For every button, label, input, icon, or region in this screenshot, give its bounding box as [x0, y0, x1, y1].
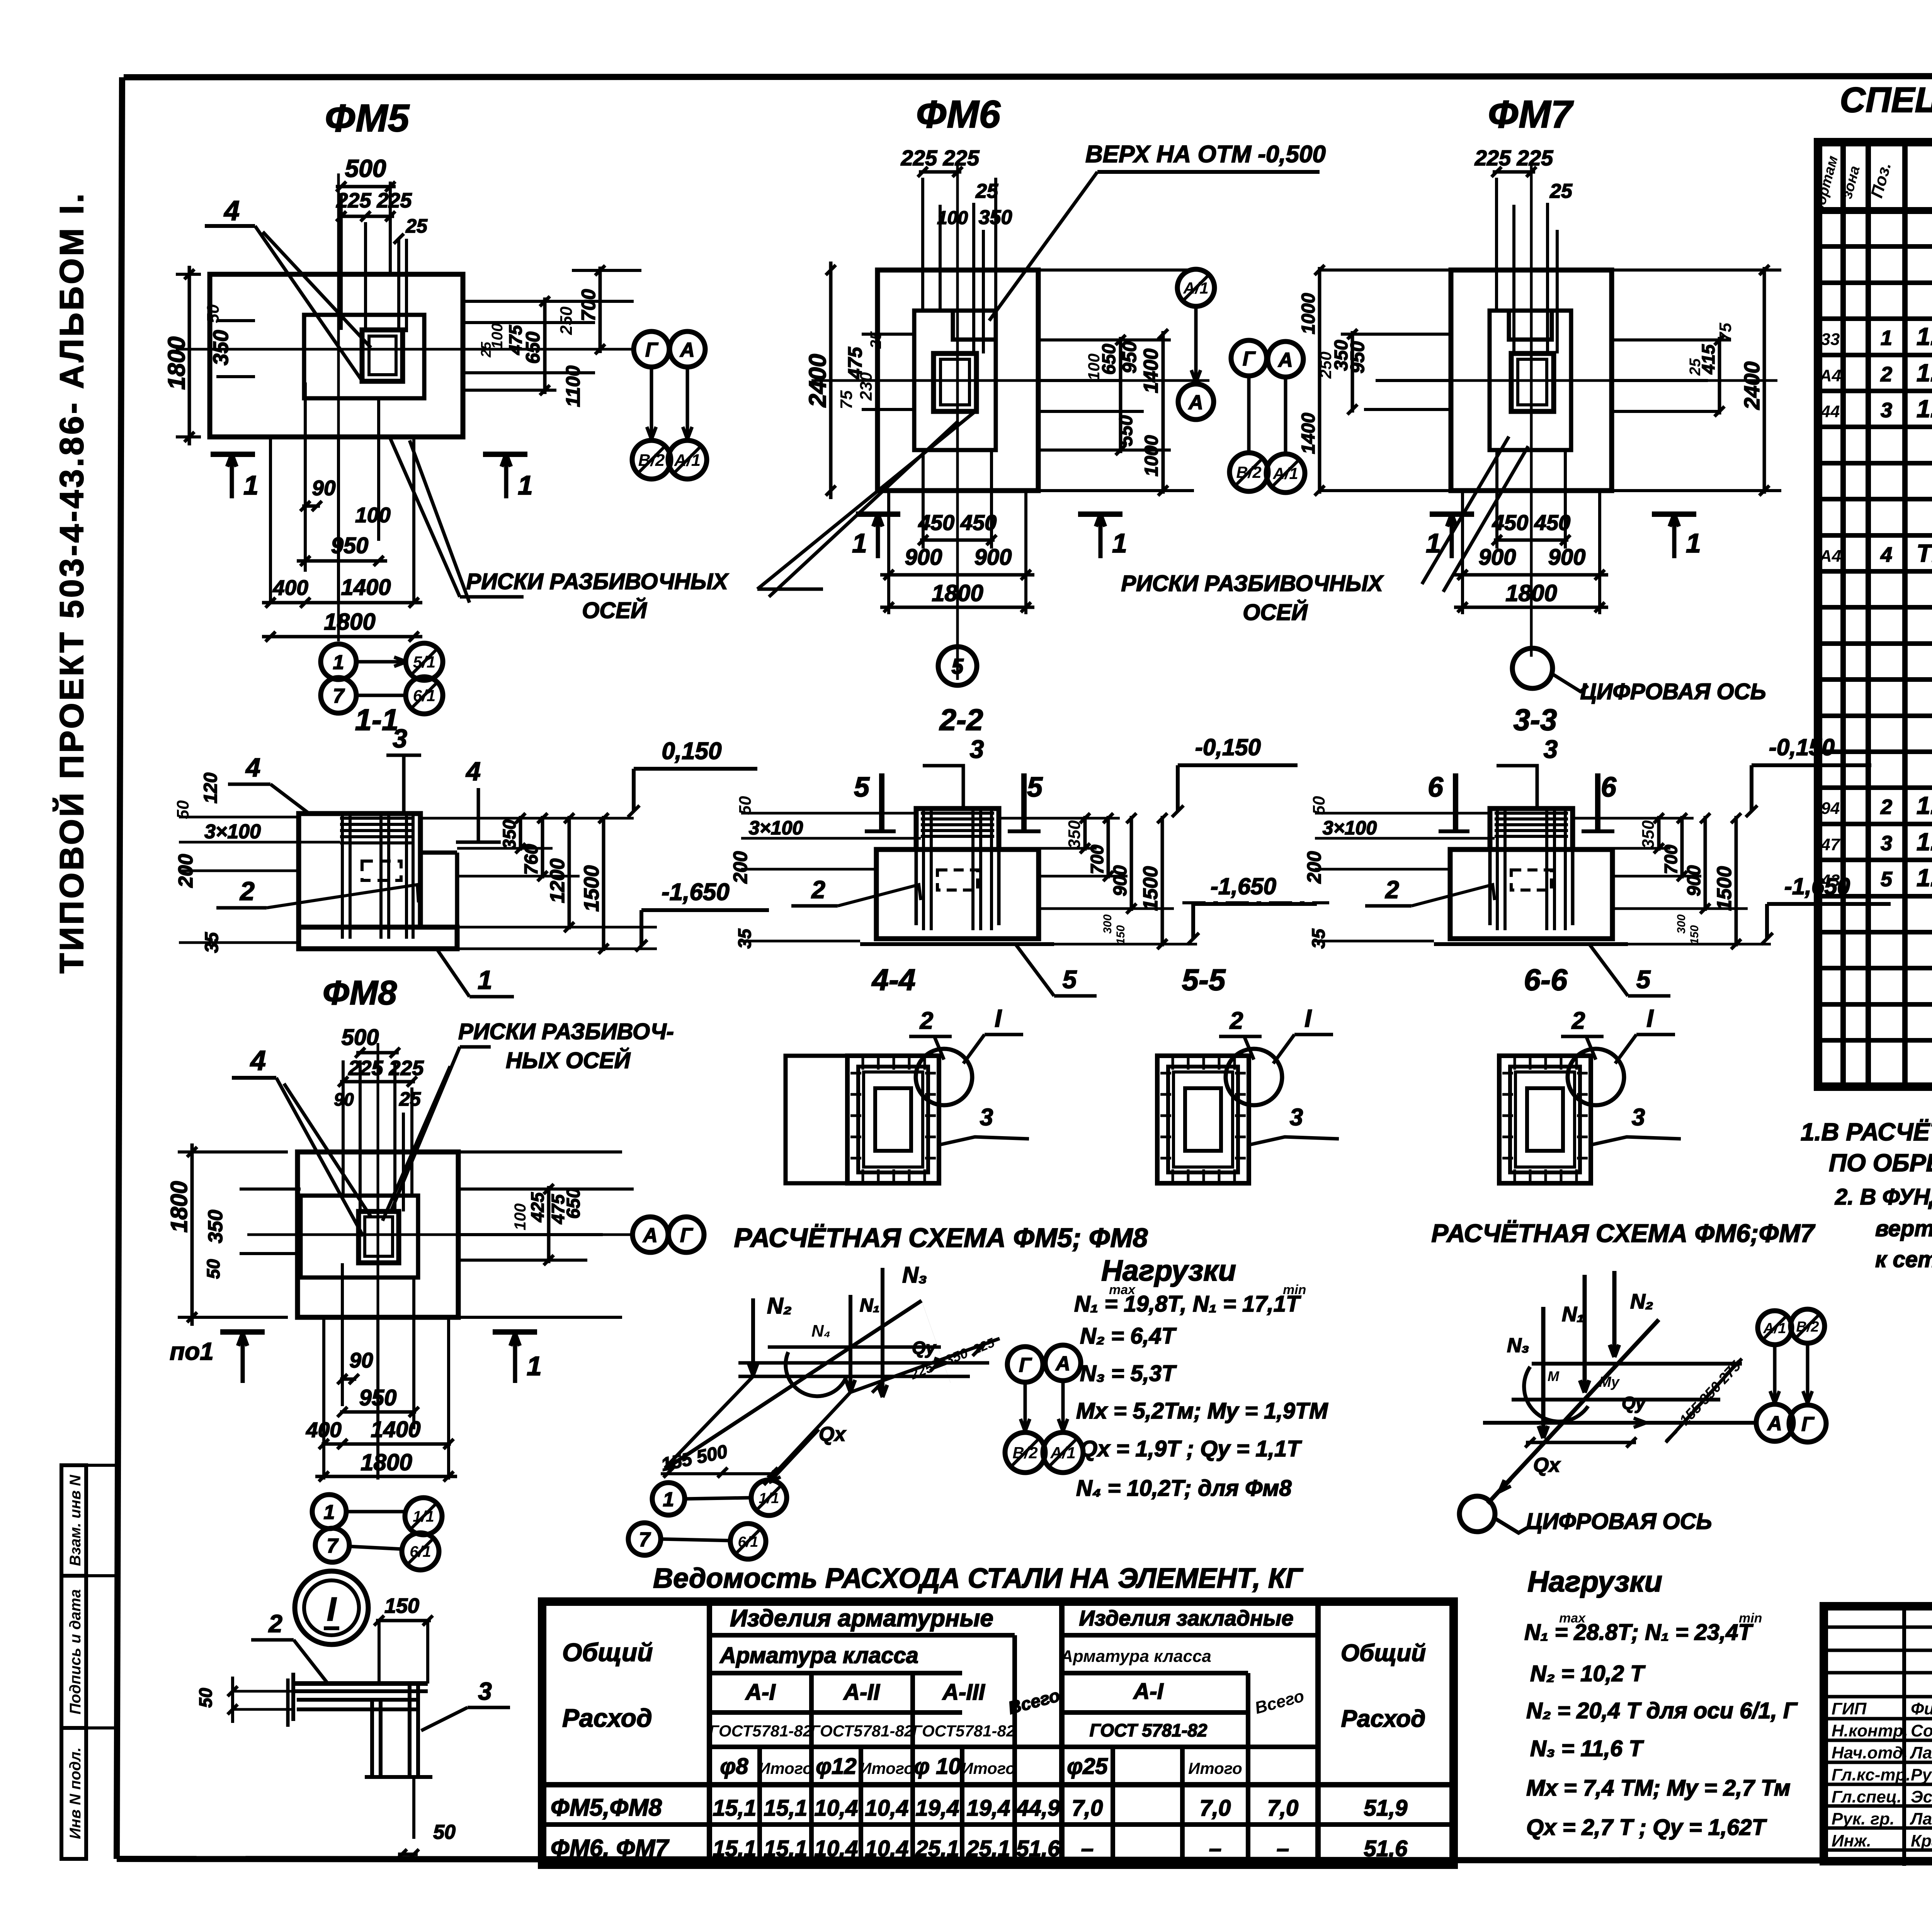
svg-text:450 450: 450 450 — [1492, 510, 1570, 535]
svg-text:15,1: 15,1 — [713, 1796, 757, 1821]
svg-text:N₄: N₄ — [811, 1322, 830, 1340]
svg-text:760: 760 — [521, 844, 542, 875]
svg-text:max: max — [1559, 1611, 1586, 1626]
svg-text:А/1: А/1 — [674, 451, 701, 470]
svg-text:90: 90 — [349, 1348, 373, 1372]
svg-text:min: min — [1739, 1611, 1762, 1626]
svg-text:1.412 -1/77, вып. 3: 1.412 -1/77, вып. 3 — [1917, 359, 1932, 387]
svg-text:А/1: А/1 — [1050, 1444, 1075, 1462]
svg-text:Г: Г — [1243, 348, 1256, 370]
svg-text:1800: 1800 — [166, 1181, 192, 1232]
section 1-1 — [173, 703, 769, 1012]
svg-text:1.412-1/77, вып. 3: 1.412-1/77, вып. 3 — [1917, 828, 1932, 856]
svg-text:5: 5 — [1027, 772, 1043, 803]
svg-text:3×100: 3×100 — [204, 821, 261, 843]
svg-text:700: 700 — [578, 289, 599, 321]
svg-text:Qу: Qу — [1622, 1393, 1646, 1413]
svg-text:-1,650: -1,650 — [662, 879, 730, 905]
svg-text:5: 5 — [1636, 965, 1651, 994]
svg-text:1400: 1400 — [1140, 348, 1162, 393]
svg-text:3-3: 3-3 — [1514, 703, 1557, 737]
svg-text:35: 35 — [1308, 928, 1328, 949]
svg-text:I: I — [327, 1591, 337, 1628]
svg-text:1800: 1800 — [361, 1449, 412, 1475]
svg-text:ФМ8: ФМ8 — [323, 973, 397, 1012]
svg-text:Соколовская: Соколовская — [1911, 1721, 1932, 1740]
svg-text:5/1: 5/1 — [413, 653, 435, 671]
spec table header — [1811, 154, 1932, 214]
svg-text:–: – — [1081, 1836, 1094, 1861]
svg-text:Арматура класса: Арматура класса — [1060, 1647, 1211, 1666]
svg-text:1400: 1400 — [341, 575, 391, 600]
svg-text:500: 500 — [345, 155, 386, 182]
svg-text:100: 100 — [355, 503, 391, 527]
svg-text:А-II: А-II — [843, 1680, 880, 1705]
svg-text:Итого: Итого — [1188, 1759, 1242, 1777]
svg-text:10,4: 10,4 — [815, 1796, 858, 1821]
plan FM7 — [1230, 93, 1781, 704]
svg-text:1/1: 1/1 — [413, 1508, 434, 1525]
svg-text:к сетке подошвы.: к сетке подошвы. — [1875, 1247, 1932, 1272]
notes text — [1801, 1118, 1932, 1272]
svg-text:900: 900 — [1684, 865, 1704, 896]
svg-text:ЦИФРОВАЯ ОСЬ: ЦИФРОВАЯ ОСЬ — [1526, 1509, 1712, 1534]
svg-text:50: 50 — [203, 1259, 223, 1279]
svg-text:Г: Г — [645, 339, 658, 361]
svg-text:400: 400 — [306, 1418, 342, 1442]
svg-text:N₂: N₂ — [1630, 1290, 1653, 1313]
svg-text:7,0: 7,0 — [1267, 1796, 1299, 1821]
svg-text:3: 3 — [980, 1104, 993, 1131]
plan FM5 — [163, 97, 707, 714]
svg-text:3: 3 — [1544, 735, 1558, 763]
svg-text:φ 10: φ 10 — [914, 1754, 961, 1779]
svg-text:4: 4 — [250, 1045, 266, 1076]
svg-text:475: 475 — [505, 324, 526, 355]
spec table content FM5 FM8 — [1819, 214, 1932, 675]
svg-text:N₃ = 11,6 Т: N₃ = 11,6 Т — [1530, 1736, 1644, 1761]
svg-text:ПО ОБРЕЗУ ФУНДАМЕНТА НА ОТ: ПО ОБРЕЗУ ФУНДАМЕНТА НА ОТМ. -0,150 — [1829, 1149, 1932, 1177]
svg-text:10,4: 10,4 — [865, 1836, 909, 1861]
svg-text:250: 250 — [557, 306, 576, 335]
svg-text:Взам. инв N: Взам. инв N — [67, 1475, 84, 1566]
svg-text:350: 350 — [209, 330, 233, 365]
svg-text:В/2: В/2 — [638, 451, 665, 470]
svg-text:225 225: 225 225 — [336, 189, 412, 212]
svg-text:А4: А4 — [1819, 366, 1841, 385]
vertical project title left margin — [53, 191, 90, 973]
svg-text:25: 25 — [1687, 358, 1704, 376]
spec table grid — [1818, 142, 1932, 1087]
svg-text:3: 3 — [478, 1677, 492, 1705]
svg-text:550: 550 — [1116, 415, 1136, 446]
svg-text:В/2: В/2 — [1236, 463, 1261, 481]
svg-text:51,9: 51,9 — [1364, 1796, 1408, 1821]
svg-text:А4: А4 — [1819, 547, 1841, 566]
svg-text:2: 2 — [920, 1007, 933, 1034]
svg-text:2: 2 — [1880, 363, 1892, 386]
svg-text:100: 100 — [1085, 353, 1103, 381]
svg-text:Гл.кс-тр.: Гл.кс-тр. — [1832, 1765, 1911, 1784]
svg-text:Изделия закладные: Изделия закладные — [1079, 1606, 1293, 1630]
svg-text:950: 950 — [1119, 341, 1140, 374]
svg-text:ГИП: ГИП — [1832, 1699, 1867, 1718]
svg-text:50: 50 — [196, 1688, 216, 1708]
svg-text:N₁ = 19,8Т, N₁ = 17,1Т: N₁ = 19,8Т, N₁ = 17,1Т — [1074, 1291, 1301, 1317]
svg-text:РАСЧЁТНАЯ СХЕМА ФМ6;ФМ7: РАСЧЁТНАЯ СХЕМА ФМ6;ФМ7 — [1431, 1219, 1816, 1247]
calc scheme FM5 FM8 drawing — [628, 1262, 1083, 1559]
svg-text:РИСКИ РАЗБИВОЧНЫХ: РИСКИ РАЗБИВОЧНЫХ — [1121, 571, 1384, 596]
svg-text:Гл.спец.: Гл.спец. — [1832, 1787, 1901, 1806]
svg-text:Итого: Итого — [860, 1759, 914, 1777]
svg-text:В/2: В/2 — [1796, 1319, 1819, 1335]
svg-text:–: – — [1209, 1836, 1221, 1861]
svg-text:Подпись и дата: Подпись и дата — [67, 1589, 84, 1714]
svg-text:230: 230 — [857, 372, 876, 401]
svg-text:I: I — [1646, 1004, 1654, 1032]
section 3-3 — [1303, 703, 1891, 996]
svg-text:3×100: 3×100 — [1323, 817, 1377, 839]
svg-text:Qх = 2,7 Т ; Qу = 1,62Т: Qх = 2,7 Т ; Qу = 1,62Т — [1526, 1815, 1767, 1840]
detail I drawing — [196, 1594, 510, 1859]
svg-text:φ12: φ12 — [816, 1754, 856, 1779]
svg-text:4-4: 4-4 — [871, 963, 916, 997]
svg-text:Qу: Qу — [912, 1338, 937, 1358]
svg-text:3: 3 — [1881, 832, 1892, 855]
svg-text:1: 1 — [1112, 528, 1127, 558]
svg-text:900: 900 — [905, 545, 942, 570]
svg-text:Нач.отд.: Нач.отд. — [1832, 1743, 1908, 1762]
svg-text:200: 200 — [175, 854, 197, 888]
svg-text:ФМ6, ФМ7: ФМ6, ФМ7 — [551, 1835, 670, 1862]
svg-text:Qх: Qх — [819, 1423, 846, 1446]
svg-text:25,1: 25,1 — [915, 1836, 959, 1861]
svg-text:вертикальной арматуры подкол: вертикальной арматуры подколонника прива… — [1875, 1216, 1932, 1241]
svg-text:200: 200 — [730, 851, 751, 884]
title block — [1824, 1606, 1932, 1866]
svg-text:47: 47 — [1821, 835, 1841, 854]
svg-text:–: – — [1277, 1836, 1289, 1861]
loads text FM5 FM8 — [1074, 1254, 1328, 1501]
svg-text:РАСЧЁТНАЯ СХЕМА ФМ5; ФМ8: РАСЧЁТНАЯ СХЕМА ФМ5; ФМ8 — [734, 1223, 1148, 1253]
svg-text:ФМ7: ФМ7 — [1488, 93, 1574, 136]
svg-text:33: 33 — [1821, 330, 1840, 349]
svg-text:6: 6 — [1601, 772, 1617, 803]
svg-text:35: 35 — [735, 928, 755, 949]
plan FM8 — [166, 1019, 704, 1570]
svg-text:15,1: 15,1 — [764, 1796, 808, 1821]
steel table grid — [542, 1602, 1454, 1865]
svg-text:А/1: А/1 — [1183, 279, 1208, 297]
svg-text:А: А — [1188, 391, 1203, 414]
svg-text:1800: 1800 — [324, 609, 375, 635]
svg-text:А-I: А-I — [1133, 1679, 1164, 1704]
svg-text:ОСЕЙ: ОСЕЙ — [582, 598, 647, 623]
svg-text:ОСЕЙ: ОСЕЙ — [1243, 600, 1308, 625]
svg-text:1400: 1400 — [371, 1417, 420, 1442]
svg-text:100: 100 — [937, 208, 968, 228]
svg-text:50: 50 — [173, 800, 192, 819]
svg-text:ГОСТ5781-82: ГОСТ5781-82 — [709, 1722, 812, 1740]
svg-text:Арматура класса: Арматура класса — [719, 1643, 918, 1668]
svg-text:Финкер: Финкер — [1911, 1699, 1932, 1718]
svg-text:ГОСТ5781-82: ГОСТ5781-82 — [912, 1722, 1015, 1740]
svg-text:-0,150: -0,150 — [1769, 734, 1835, 760]
svg-text:19,4: 19,4 — [967, 1796, 1010, 1821]
svg-text:N₂ = 6,4Т: N₂ = 6,4Т — [1080, 1323, 1177, 1349]
svg-text:900: 900 — [1110, 865, 1131, 896]
svg-text:N₁: N₁ — [860, 1295, 880, 1316]
svg-text:Mх = 7,4 ТМ; Mу = 2,7 Тм: Mх = 7,4 ТМ; Mу = 2,7 Тм — [1526, 1775, 1791, 1801]
svg-text:N₃: N₃ — [902, 1262, 927, 1288]
svg-text:ВЕРХ НА ОТМ -0,500: ВЕРХ НА ОТМ -0,500 — [1085, 141, 1326, 168]
svg-text:350: 350 — [204, 1210, 227, 1244]
svg-text:1/1: 1/1 — [759, 1490, 779, 1507]
svg-text:950: 950 — [1347, 341, 1368, 374]
steel table text — [551, 1605, 1426, 1862]
svg-text:35: 35 — [202, 932, 222, 953]
svg-text:А: А — [1277, 349, 1293, 371]
svg-text:25,1: 25,1 — [966, 1836, 1010, 1861]
svg-text:Mу: Mу — [1599, 1374, 1620, 1390]
svg-text:3: 3 — [1881, 399, 1892, 422]
svg-text:50: 50 — [433, 1821, 456, 1843]
svg-text:25: 25 — [405, 215, 428, 237]
svg-text:2: 2 — [1230, 1007, 1243, 1034]
svg-text:5: 5 — [854, 772, 870, 803]
svg-text:51,6: 51,6 — [1017, 1836, 1061, 1861]
svg-text:1000: 1000 — [1141, 435, 1162, 476]
svg-text:N₁: N₁ — [1562, 1303, 1584, 1326]
svg-text:150: 150 — [384, 1594, 419, 1617]
svg-text:7,0: 7,0 — [1200, 1796, 1231, 1821]
svg-text:1.В РАСЧЁТНЫХ СХЕМАХ ДАНЫ Н: 1.В РАСЧЁТНЫХ СХЕМАХ ДАНЫ НОРМАТИВНЫЕ НА… — [1801, 1118, 1932, 1146]
svg-text:200: 200 — [1303, 851, 1325, 884]
svg-text:φ8: φ8 — [720, 1754, 748, 1779]
svg-text:90: 90 — [312, 476, 336, 500]
svg-text:Qх = 1,9Т ; Qу = 1,1Т: Qх = 1,9Т ; Qу = 1,1Т — [1080, 1436, 1302, 1461]
svg-text:Ведомость РАСХОДА СТАЛИ НА ЭЛ: Ведомость РАСХОДА СТАЛИ НА ЭЛЕМЕНТ, КГ — [653, 1563, 1303, 1594]
loads text FM6 FM7 — [1524, 1565, 1798, 1840]
svg-text:2400: 2400 — [804, 354, 831, 408]
svg-text:Общий: Общий — [1341, 1640, 1426, 1667]
svg-text:7: 7 — [639, 1529, 651, 1551]
svg-text:Кравчук: Кравчук — [1911, 1831, 1932, 1850]
svg-text:ТИПОВОЙ ПРОЕКТ 503-4-43.86-: ТИПОВОЙ ПРОЕКТ 503-4-43.86- АЛЬБОМ I. — [53, 191, 90, 973]
svg-text:950: 950 — [359, 1385, 397, 1410]
svg-text:94: 94 — [1821, 799, 1840, 818]
svg-text:2400: 2400 — [1740, 362, 1764, 410]
svg-text:10,4: 10,4 — [815, 1836, 858, 1861]
svg-text:650: 650 — [563, 1188, 584, 1219]
svg-text:6: 6 — [1428, 772, 1444, 803]
left stamp column — [61, 1465, 117, 1859]
svg-text:Нагрузки: Нагрузки — [1527, 1565, 1662, 1598]
svg-text:Mх = 5,2Тм; Mу = 1,9ТМ: Mх = 5,2Тм; Mу = 1,9ТМ — [1076, 1398, 1328, 1424]
detail 6-6 — [1499, 963, 1681, 1183]
text riski FM5 — [390, 438, 729, 623]
svg-text:6/1: 6/1 — [410, 1543, 431, 1560]
svg-text:А: А — [1055, 1352, 1070, 1375]
svg-text:min: min — [1283, 1283, 1306, 1297]
svg-text:Латышев: Латышев — [1910, 1743, 1932, 1762]
svg-text:1500: 1500 — [1139, 866, 1162, 911]
svg-text:ФМ6: ФМ6 — [916, 93, 1001, 136]
svg-text:1100: 1100 — [562, 365, 584, 407]
svg-text:Инж.: Инж. — [1832, 1831, 1871, 1850]
svg-text:1.410-3, вып. 1: 1.410-3, вып. 1 — [1917, 864, 1932, 892]
svg-text:0,150: 0,150 — [662, 738, 721, 764]
svg-text:Г: Г — [680, 1224, 693, 1247]
svg-text:Расход: Расход — [1341, 1706, 1426, 1732]
svg-text:Инв N подл.: Инв N подл. — [67, 1747, 84, 1839]
svg-text:В/2: В/2 — [1012, 1444, 1037, 1462]
svg-text:Г: Г — [1019, 1354, 1032, 1376]
svg-text:400: 400 — [272, 576, 308, 600]
svg-text:Рубан: Рубан — [1911, 1765, 1932, 1784]
svg-text:1800: 1800 — [932, 580, 983, 606]
svg-text:I: I — [995, 1004, 1002, 1032]
plan FM6 — [804, 93, 1214, 685]
svg-text:N₃: N₃ — [1507, 1334, 1529, 1357]
svg-text:1: 1 — [663, 1488, 674, 1511]
svg-text:2: 2 — [268, 1610, 282, 1638]
svg-text:А: А — [679, 339, 695, 361]
svg-text:А/1: А/1 — [1272, 464, 1298, 482]
svg-text:-1,650: -1,650 — [1784, 873, 1850, 899]
svg-text:1: 1 — [324, 1501, 335, 1524]
svg-text:1: 1 — [478, 965, 492, 995]
detail 4-4 — [786, 963, 1029, 1183]
svg-text:ФМ5: ФМ5 — [325, 97, 410, 140]
svg-text:5: 5 — [1063, 965, 1077, 994]
svg-text:1: 1 — [243, 470, 259, 500]
text riski FM6 bottom — [757, 409, 1384, 625]
svg-text:25: 25 — [399, 1088, 421, 1110]
svg-text:4: 4 — [1880, 543, 1892, 566]
svg-text:N₁ = 28.8Т; N₁ = 23,4Т: N₁ = 28.8Т; N₁ = 23,4Т — [1524, 1620, 1753, 1645]
svg-text:РИСКИ РАЗБИВОЧНЫХ: РИСКИ РАЗБИВОЧНЫХ — [466, 569, 729, 594]
svg-text:2: 2 — [239, 877, 255, 906]
svg-text:1800: 1800 — [1505, 580, 1557, 606]
svg-text:2: 2 — [1880, 795, 1892, 819]
svg-text:75: 75 — [837, 390, 856, 409]
svg-text:1000: 1000 — [1298, 293, 1319, 334]
svg-text:7: 7 — [327, 1535, 339, 1557]
svg-text:3: 3 — [1290, 1104, 1303, 1131]
svg-text:2: 2 — [811, 876, 825, 904]
svg-text:max: max — [1109, 1283, 1136, 1297]
svg-text:450 450: 450 450 — [918, 510, 997, 535]
svg-text:Эсинов: Эсинов — [1911, 1787, 1932, 1806]
text verh na otm -0.500 — [989, 141, 1326, 321]
svg-text:700: 700 — [1661, 844, 1681, 874]
svg-text:1: 1 — [333, 651, 344, 674]
svg-text:N₂ = 10,2 Т: N₂ = 10,2 Т — [1530, 1661, 1646, 1686]
svg-text:3: 3 — [970, 735, 984, 763]
svg-text:2. В ФУНДАМЕНТАХ ФМ5, ФМ6, Ф: 2. В ФУНДАМЕНТАХ ФМ5, ФМ6, ФМ8 один из с… — [1835, 1184, 1932, 1210]
svg-text:950: 950 — [331, 533, 369, 558]
detail I circle — [295, 1571, 368, 1644]
svg-text:300: 300 — [1101, 914, 1114, 934]
svg-text:А/1: А/1 — [1763, 1320, 1786, 1337]
svg-text:-0,150: -0,150 — [1195, 734, 1261, 760]
svg-text:по1: по1 — [170, 1337, 214, 1365]
svg-text:19,4: 19,4 — [916, 1796, 959, 1821]
svg-text:ФМ5,ФМ8: ФМ5,ФМ8 — [551, 1794, 662, 1821]
svg-text:2: 2 — [1571, 1007, 1585, 1034]
svg-text:6/1: 6/1 — [413, 686, 435, 705]
svg-text:Рук. гр.: Рук. гр. — [1832, 1809, 1895, 1828]
spec table content FM6 FM7 — [1821, 683, 1932, 1000]
svg-text:700: 700 — [1087, 844, 1107, 874]
svg-text:900: 900 — [1479, 545, 1516, 570]
svg-text:4: 4 — [223, 195, 240, 226]
svg-text:ГОСТ 5781-82: ГОСТ 5781-82 — [1090, 1720, 1207, 1740]
svg-text:10,4: 10,4 — [865, 1796, 909, 1821]
svg-text:1: 1 — [1881, 326, 1892, 350]
svg-text:4: 4 — [245, 753, 260, 782]
svg-text:1-1: 1-1 — [355, 703, 399, 737]
svg-text:4: 4 — [465, 757, 481, 786]
svg-text:350: 350 — [499, 819, 519, 849]
svg-text:Изделия арматурные: Изделия арматурные — [730, 1605, 993, 1632]
svg-text:5: 5 — [951, 654, 964, 678]
svg-text:900: 900 — [1548, 545, 1586, 570]
svg-text:3: 3 — [393, 724, 407, 753]
svg-text:2-2: 2-2 — [939, 703, 983, 737]
svg-text:75: 75 — [1716, 323, 1735, 341]
svg-text:300: 300 — [1675, 914, 1688, 934]
svg-text:225 225: 225 225 — [1475, 146, 1553, 170]
svg-text:Лазаренко: Лазаренко — [1910, 1809, 1932, 1828]
svg-text:НЫХ ОСЕЙ: НЫХ ОСЕЙ — [506, 1048, 631, 1073]
svg-text:-1,650: -1,650 — [1211, 873, 1276, 899]
svg-text:900: 900 — [975, 545, 1012, 570]
calc scheme FM6 FM7 drawing — [1459, 1271, 1826, 1534]
svg-text:6-6: 6-6 — [1524, 963, 1568, 997]
svg-text:Итого: Итого — [759, 1759, 813, 1777]
svg-text:1200: 1200 — [546, 858, 569, 903]
svg-text:150: 150 — [1688, 925, 1701, 945]
svg-text:А-I: А-I — [745, 1680, 776, 1705]
svg-text:M: M — [1548, 1368, 1560, 1384]
svg-text:Расход: Расход — [562, 1704, 652, 1732]
svg-text:50: 50 — [736, 796, 755, 815]
svg-text:N₂: N₂ — [767, 1293, 792, 1318]
svg-text:1: 1 — [527, 1351, 542, 1381]
svg-text:Н.контр.: Н.контр. — [1832, 1721, 1908, 1740]
section 2-2 — [730, 703, 1317, 996]
svg-text:7,0: 7,0 — [1072, 1796, 1103, 1821]
svg-text:А: А — [1767, 1412, 1782, 1435]
svg-text:350: 350 — [1639, 820, 1658, 849]
svg-text:5-5: 5-5 — [1182, 963, 1226, 997]
svg-text:225 225: 225 225 — [901, 146, 980, 170]
svg-text:1500: 1500 — [1713, 866, 1736, 911]
svg-text:1.412 -1/77, вып. 3: 1.412 -1/77, вып. 3 — [1917, 395, 1932, 423]
svg-text:N₃ = 5,3Т: N₃ = 5,3Т — [1080, 1361, 1177, 1386]
svg-text:3×100: 3×100 — [749, 817, 803, 839]
detail 5-5 — [1157, 963, 1339, 1183]
svg-text:I: I — [1304, 1004, 1312, 1032]
svg-text:5: 5 — [1881, 868, 1893, 891]
svg-text:44,9: 44,9 — [1016, 1796, 1060, 1821]
svg-text:1.412-1/77, вып. 3: 1.412-1/77, вып. 3 — [1917, 792, 1932, 819]
svg-text:Общий: Общий — [562, 1638, 653, 1667]
svg-text:500: 500 — [342, 1025, 379, 1050]
svg-text:Итого: Итого — [961, 1759, 1015, 1777]
